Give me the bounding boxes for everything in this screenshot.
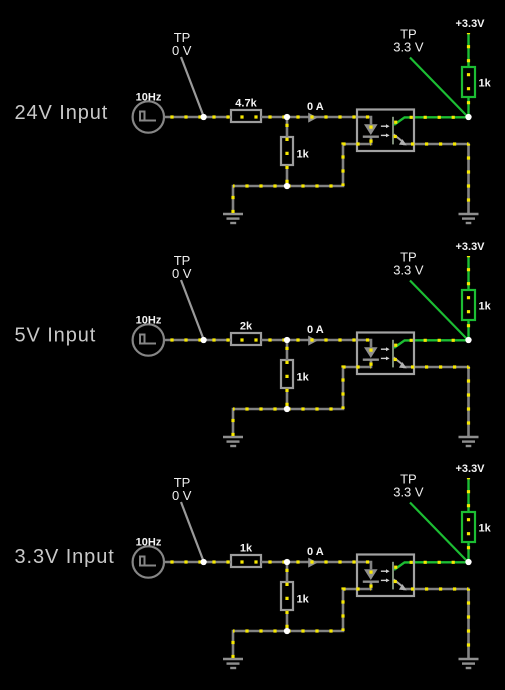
svg-text:24V Input: 24V Input bbox=[15, 102, 109, 124]
svg-text:2k: 2k bbox=[240, 321, 253, 333]
svg-text:5V Input: 5V Input bbox=[15, 325, 97, 347]
svg-text:4.7k: 4.7k bbox=[235, 98, 257, 110]
svg-text:3.3V Input: 3.3V Input bbox=[15, 546, 115, 568]
svg-text:1k: 1k bbox=[240, 543, 253, 555]
